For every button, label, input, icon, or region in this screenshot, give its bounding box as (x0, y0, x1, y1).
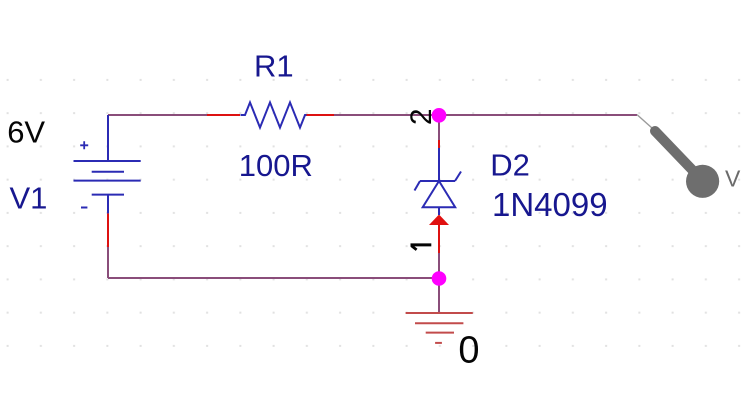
svg-text:V1: V1 (10, 180, 48, 215)
svg-text:1N4099: 1N4099 (492, 186, 608, 223)
svg-text:0: 0 (458, 330, 479, 372)
svg-text:V: V (725, 166, 741, 192)
svg-text:R1: R1 (254, 49, 294, 84)
svg-text:D2: D2 (490, 148, 530, 183)
svg-text:6V: 6V (7, 115, 45, 150)
svg-text:100R: 100R (239, 148, 313, 183)
svg-text:2: 2 (405, 108, 438, 125)
